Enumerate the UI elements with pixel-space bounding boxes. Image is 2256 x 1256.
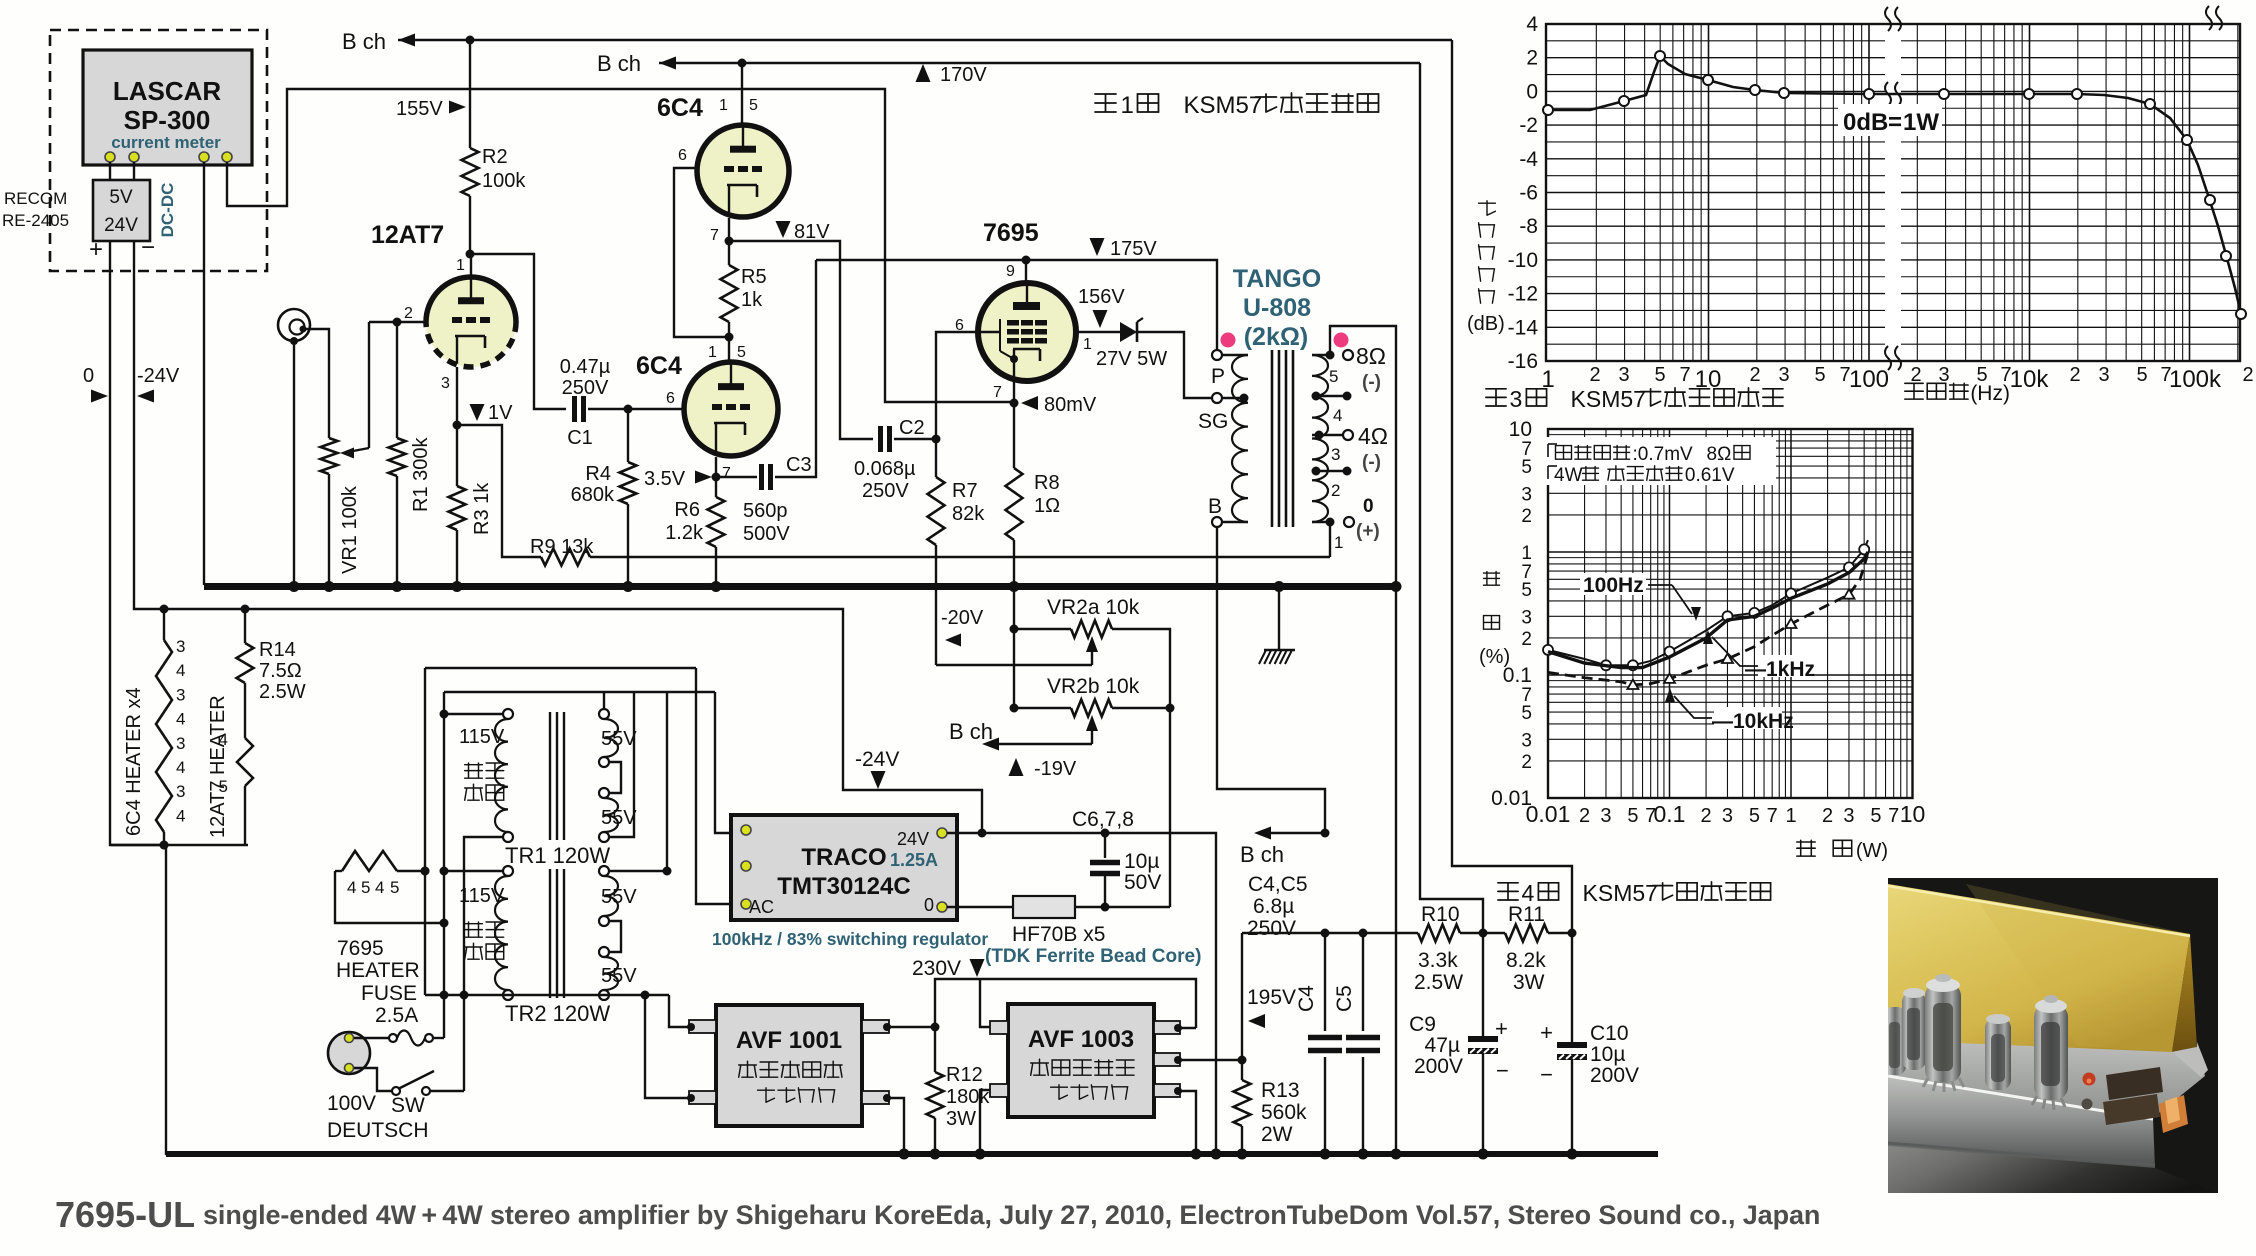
svg-text:7695: 7695 [337, 937, 384, 960]
svg-text:−: − [1540, 1062, 1553, 1087]
chart1 y axis label katakana [1479, 201, 1496, 215]
svg-text:AC: AC [749, 897, 774, 917]
transformer core [1271, 350, 1274, 527]
svg-text:1: 1 [1785, 805, 1796, 827]
svg-text:1: 1 [1121, 92, 1134, 119]
capacitor C2 0.068u [878, 426, 883, 452]
svg-text:0.01: 0.01 [1526, 801, 1571, 827]
transformer TR2 primary [503, 866, 513, 876]
svg-text:1: 1 [1334, 533, 1343, 552]
svg-text:560p: 560p [743, 500, 788, 522]
transformer TR1 primary [503, 709, 513, 719]
wire 6C4a grid pin6 [674, 168, 727, 337]
svg-text:4: 4 [219, 730, 228, 749]
svg-text:TANGO: TANGO [1233, 265, 1321, 293]
svg-text:TRACO: TRACO [801, 844, 886, 871]
AVF1003 pins [1154, 1021, 1180, 1034]
svg-text:LASCAR: LASCAR [113, 76, 222, 106]
svg-text:12AT7: 12AT7 [371, 221, 444, 249]
capacitor C3 560p [716, 476, 757, 478]
svg-text:B ch: B ch [342, 29, 386, 54]
svg-text:5: 5 [1521, 703, 1532, 724]
secondary tap 2 [1312, 470, 1347, 472]
svg-text:3W: 3W [1513, 971, 1545, 994]
svg-text:3: 3 [441, 375, 450, 392]
svg-text:5: 5 [2136, 364, 2147, 386]
svg-text:R9 13k: R9 13k [530, 536, 594, 558]
wire B ch line to R2 [469, 40, 471, 148]
svg-text:0: 0 [83, 365, 94, 387]
label 170V [916, 64, 931, 82]
svg-text:10k: 10k [2010, 366, 2050, 393]
svg-text:500V: 500V [743, 523, 790, 545]
wire TR2 top line to x667 [604, 870, 667, 872]
svg-text:115V: 115V [459, 726, 505, 748]
meter block dashed enclosure [50, 30, 267, 271]
diode zener 27V 5W [1076, 331, 1120, 333]
resistor R13 560k 2W [1241, 933, 1243, 1080]
chart1 caption [1486, 389, 1506, 406]
svg-text:—1kHz: —1kHz [1745, 658, 1815, 681]
AVF1001 pins [689, 1020, 716, 1033]
svg-text:SG: SG [1198, 410, 1228, 433]
phase dot secondary [1334, 333, 1349, 348]
label 175V [1090, 238, 1105, 256]
svg-text:KSM57: KSM57 [1571, 386, 1646, 412]
svg-text:-12: -12 [1508, 283, 1538, 306]
phase dot primary [1221, 333, 1236, 348]
node -24V rail dots [160, 605, 169, 614]
svg-text:2: 2 [2242, 364, 2253, 386]
svg-text:R3 1k: R3 1k [471, 482, 493, 535]
TR1 secondary jumper [609, 762, 621, 793]
stub B ch output left arrow [1262, 832, 1325, 834]
wire 12AT7 plate node [470, 254, 472, 277]
svg-text:560k: 560k [1261, 1101, 1307, 1124]
wire 6C4b plate stem [728, 337, 730, 363]
svg-text:SW: SW [391, 1094, 425, 1117]
svg-text:(dB): (dB) [1467, 313, 1505, 335]
transformer TR2 secondary [599, 866, 609, 876]
svg-text:VR1 100k: VR1 100k [339, 485, 361, 574]
svg-text:=: = [1888, 109, 1902, 136]
curve 100Hz [1548, 540, 1868, 665]
svg-text:-4: -4 [1519, 148, 1538, 171]
svg-text:195V: 195V [1247, 986, 1296, 1009]
svg-text:RECOM: RECOM [4, 189, 67, 208]
svg-text:3.5V: 3.5V [644, 468, 686, 490]
svg-text:7.5Ω: 7.5Ω [259, 660, 302, 682]
chart1 x axis label [1905, 383, 1968, 399]
svg-text:5: 5 [1521, 580, 1532, 601]
regulator TRACO TMT30124C [731, 815, 957, 920]
svg-text:680k: 680k [571, 484, 615, 506]
resistor R1 300k [396, 322, 398, 438]
wires AVF1003 right pins [1178, 1027, 1196, 1029]
svg-text:82k: 82k [952, 503, 985, 525]
wire NFB from cathode [457, 425, 541, 557]
AC feed line upper [425, 667, 696, 669]
svg-text:(-): (-) [1362, 372, 1381, 393]
wire C3 to plate line [775, 260, 816, 477]
svg-text:3: 3 [1722, 805, 1733, 827]
svg-text:-10: -10 [1508, 249, 1538, 272]
svg-text:175V: 175V [1110, 238, 1157, 260]
svg-text:2: 2 [1589, 364, 1600, 386]
svg-text:24V: 24V [897, 829, 929, 849]
svg-text:C3: C3 [786, 454, 812, 476]
resistor R2 100k [462, 148, 479, 196]
resistor R7 82k [935, 439, 937, 477]
resistor R6 1.2k [708, 497, 725, 547]
AC bottom line [425, 994, 669, 996]
svg-text:4Ω: 4Ω [1358, 423, 1388, 449]
secondary tap 3 (4 ohm) [1312, 434, 1348, 436]
svg-text:3.3k: 3.3k [1418, 949, 1458, 972]
resistor R5 1k [728, 241, 730, 265]
svg-text:SP-300: SP-300 [124, 105, 211, 135]
svg-text:6C4: 6C4 [657, 94, 703, 122]
svg-text:R6: R6 [674, 499, 700, 521]
svg-text:250V: 250V [562, 377, 609, 399]
resistor R14 7.5ohm [244, 609, 246, 643]
svg-text:1V: 1V [488, 402, 513, 424]
svg-text:-19V: -19V [1034, 758, 1077, 780]
svg-text:—10kHz: —10kHz [1712, 710, 1794, 733]
rectifier unit AVF 1001 [716, 1005, 862, 1126]
svg-text:B ch: B ch [597, 51, 641, 76]
svg-text:100k: 100k [482, 170, 526, 192]
photo of amplifier [1884, 878, 2218, 1193]
wire jack shield to bus [293, 341, 295, 585]
tube 7695 [1025, 260, 1027, 284]
svg-text:50V: 50V [1124, 871, 1161, 894]
svg-text:5: 5 [390, 878, 399, 897]
svg-text:10: 10 [1509, 418, 1532, 441]
svg-text:C10: C10 [1590, 1022, 1629, 1045]
svg-text:U-808: U-808 [1243, 294, 1311, 322]
svg-text:5: 5 [361, 878, 370, 897]
svg-text:115V: 115V [459, 885, 505, 907]
svg-text:4: 4 [375, 878, 384, 897]
svg-text:-24V: -24V [855, 748, 899, 771]
wire meter pin3 to ground bus [203, 162, 205, 585]
svg-text:3: 3 [1521, 484, 1532, 505]
svg-text:3: 3 [1331, 445, 1340, 464]
resistor R12 180k 3W [927, 1072, 944, 1118]
resistor R11 8.2k [1505, 925, 1548, 942]
wire diode to SG [1137, 332, 1211, 398]
svg-text:HF70B x5: HF70B x5 [1012, 923, 1105, 946]
svg-text:3: 3 [1618, 364, 1629, 386]
svg-text:3: 3 [1521, 730, 1532, 751]
svg-text:7: 7 [1767, 805, 1778, 827]
wire 6C4a cathode node [728, 218, 730, 241]
wire VR2 node to C6,7,8 [1169, 708, 1171, 907]
svg-text:VR2a 10k: VR2a 10k [1047, 596, 1140, 619]
wire TR1 sec bottom via riser [609, 692, 634, 837]
label 81V [776, 221, 791, 238]
meter LASCAR SP-300 [83, 50, 252, 165]
svg-text:0: 0 [924, 895, 934, 915]
svg-text:4: 4 [176, 758, 185, 777]
capacitor C9 47u electrolytic [1482, 933, 1484, 1036]
svg-text:FUSE: FUSE [361, 982, 417, 1005]
svg-text:1: 1 [456, 257, 465, 274]
svg-text:100k: 100k [2169, 366, 2222, 393]
svg-text:0: 0 [1363, 496, 1374, 517]
LASCAR pins [105, 152, 115, 162]
svg-text:C1: C1 [567, 427, 593, 449]
svg-text:3: 3 [1843, 805, 1854, 827]
svg-text:7: 7 [1679, 364, 1690, 386]
svg-text:R8: R8 [1034, 472, 1060, 494]
B+ line to R10 R11 [1242, 932, 1418, 934]
resistor R4 680k [627, 409, 629, 462]
curve labels [1580, 573, 1646, 595]
ground symbol [1278, 585, 1280, 650]
svg-text:5: 5 [1521, 457, 1532, 478]
svg-text:-20V: -20V [941, 607, 984, 629]
riser x444 [443, 692, 445, 995]
svg-text:AVF 1003: AVF 1003 [1028, 1026, 1134, 1053]
svg-text:156V: 156V [1078, 286, 1125, 308]
svg-text:8Ω: 8Ω [1707, 444, 1732, 465]
wire cathode pin3 node [456, 367, 458, 425]
svg-text:AVF 1001: AVF 1001 [736, 1027, 842, 1054]
svg-text:5V: 5V [109, 187, 133, 208]
wire TR1 sec top to AC line [603, 692, 605, 709]
svg-text:HEATER: HEATER [336, 959, 420, 982]
resistor R8 1ohm [1013, 403, 1015, 468]
svg-text:5: 5 [1870, 805, 1881, 827]
svg-text:4: 4 [176, 661, 185, 680]
capacitors C4 C5 [1324, 933, 1326, 1031]
svg-text:-14: -14 [1508, 316, 1539, 339]
svg-text:5: 5 [737, 344, 746, 361]
svg-text:KSM57: KSM57 [1583, 880, 1658, 906]
wire grid pin2 [369, 321, 426, 323]
svg-text:2: 2 [1701, 805, 1712, 827]
svg-text:6C4: 6C4 [636, 352, 682, 380]
wire -24V rail [134, 241, 982, 833]
svg-text:C4,C5: C4,C5 [1248, 873, 1308, 896]
svg-text:-2: -2 [1519, 114, 1538, 137]
svg-text:27V 5W: 27V 5W [1096, 348, 1167, 370]
label -19V [1009, 758, 1024, 776]
VR2b wiper from B ch [1091, 725, 1093, 744]
wire tap5 to ground frame [1330, 326, 1396, 1155]
svg-text:200V: 200V [1590, 1064, 1639, 1087]
transformer TR1 secondary [599, 709, 609, 719]
potentiometer VR1 100k [321, 438, 338, 474]
AC feed line lower [444, 691, 715, 693]
svg-text:0.1: 0.1 [1654, 801, 1686, 827]
svg-text:1Ω: 1Ω [1034, 495, 1060, 517]
svg-text:-8: -8 [1519, 215, 1538, 238]
svg-text:7: 7 [722, 465, 731, 482]
svg-text:3: 3 [2098, 364, 2109, 386]
svg-text::0.7mV: :0.7mV [1633, 444, 1694, 465]
svg-text:6: 6 [678, 147, 687, 164]
svg-text:3: 3 [176, 637, 185, 656]
wire NFB B drop [1420, 63, 1483, 933]
svg-text:B: B [1208, 495, 1222, 518]
wire switch to riser [430, 1090, 464, 1092]
svg-text:−: − [141, 234, 155, 261]
chart1 response curve [1548, 56, 2241, 314]
svg-text:1: 1 [1083, 336, 1092, 353]
svg-text:R2: R2 [482, 146, 508, 168]
svg-text:3: 3 [1600, 805, 1611, 827]
svg-text:(+): (+) [1356, 521, 1380, 542]
transformer primary winding [1222, 354, 1248, 356]
svg-text:250V: 250V [1247, 917, 1296, 940]
svg-text:2: 2 [1521, 629, 1532, 650]
wire B terminal down [1217, 527, 1325, 833]
legend noise text [1546, 437, 1776, 485]
svg-text:B ch: B ch [1240, 842, 1284, 867]
svg-text:R1 300k: R1 300k [410, 437, 432, 512]
svg-text:81V: 81V [794, 221, 830, 243]
bottom ground bus [166, 1151, 1658, 1157]
svg-text:-24V: -24V [137, 365, 180, 387]
svg-text:155V: 155V [396, 98, 443, 120]
svg-text:2: 2 [1526, 47, 1538, 70]
svg-text:−: − [1496, 1058, 1509, 1083]
svg-text:R13: R13 [1261, 1079, 1300, 1102]
capacitor C10 10u electrolytic [1571, 933, 1573, 1042]
svg-text:TR2 120W: TR2 120W [505, 1001, 610, 1026]
svg-text:(2kΩ): (2kΩ) [1244, 323, 1309, 351]
wire 6C4a plate stem [741, 63, 743, 126]
wire NFB A drop [1452, 40, 1572, 933]
svg-text:5: 5 [749, 97, 758, 114]
wire TRACO inputs [715, 692, 731, 833]
svg-text:6C4 HEATER x4: 6C4 HEATER x4 [123, 687, 145, 836]
svg-text:8.2k: 8.2k [1506, 949, 1546, 972]
svg-text:6.8µ: 6.8µ [1253, 895, 1294, 918]
svg-text:3W: 3W [946, 1108, 976, 1130]
tube 12AT7 [426, 277, 516, 367]
svg-text:55V: 55V [601, 728, 637, 750]
svg-text:single-ended 4W + 4W stereo am: single-ended 4W + 4W stereo amplifier by… [203, 1200, 1820, 1230]
riser from fuse [424, 668, 426, 995]
chart frequency response [1508, 6, 2254, 393]
svg-text:2: 2 [404, 305, 413, 322]
wire 0V rail down-left [110, 241, 165, 845]
svg-text:5: 5 [1814, 364, 1825, 386]
svg-text:3: 3 [176, 734, 185, 753]
svg-text:2.5W: 2.5W [1414, 971, 1463, 994]
svg-text:(TDK Ferrite Bead Core): (TDK Ferrite Bead Core) [985, 946, 1201, 967]
svg-text:C4: C4 [1295, 985, 1318, 1012]
TR2 secondary jumper [609, 921, 621, 952]
svg-text:R10: R10 [1421, 903, 1460, 926]
capacitor C1 0.47u [572, 396, 577, 422]
svg-text:C5: C5 [1333, 985, 1356, 1012]
svg-text:3: 3 [1521, 607, 1532, 628]
fuse [354, 1037, 389, 1039]
svg-text:1k: 1k [741, 289, 763, 311]
svg-text:7: 7 [993, 384, 1002, 401]
svg-text:R5: R5 [741, 266, 767, 288]
svg-text:4: 4 [176, 806, 185, 825]
wire NFB line to output 0 tap [590, 556, 1330, 558]
svg-text:2: 2 [2069, 364, 2080, 386]
tube 6C4 (b) [684, 362, 778, 456]
svg-text:10µ: 10µ [1590, 1043, 1625, 1066]
wire meter pin4 sense line to 7695 cathode [227, 89, 1011, 402]
svg-text:1.25A: 1.25A [890, 850, 938, 870]
wire R7 to VR2a wiper [936, 664, 1092, 666]
svg-text:6: 6 [666, 390, 675, 407]
svg-text:4: 4 [1521, 880, 1534, 906]
svg-text:B ch: B ch [949, 719, 993, 744]
svg-text:2: 2 [1331, 481, 1340, 500]
secondary tap 5 (8 ohm) [1312, 354, 1330, 356]
switch SW [354, 1068, 392, 1091]
svg-text:C2: C2 [899, 417, 925, 439]
wires AVF1001 right pins [887, 1026, 935, 1028]
wire cathode to C2 [729, 241, 873, 439]
svg-text:2: 2 [1521, 506, 1532, 527]
svg-text:1: 1 [708, 344, 717, 361]
wire jack hot to VR1 [303, 329, 329, 438]
wire AC line to AVF1001 pins [645, 995, 689, 1098]
svg-text:(-): (-) [1362, 452, 1381, 473]
secondary tap 4 [1312, 395, 1347, 397]
tube 6C4 (a) [697, 125, 789, 217]
svg-text:230V: 230V [912, 957, 961, 980]
resistor R9 13k [541, 549, 590, 566]
svg-text:1: 1 [719, 97, 728, 114]
svg-text:2: 2 [1521, 752, 1532, 773]
svg-text:R12: R12 [946, 1064, 983, 1086]
svg-text:2: 2 [1749, 364, 1760, 386]
svg-text:0.068µ: 0.068µ [854, 458, 916, 480]
chart distortion [1548, 429, 1913, 798]
svg-text:47µ: 47µ [1425, 1034, 1460, 1057]
svg-text:5: 5 [219, 777, 228, 796]
secondary tap 1 (0 +) [1312, 521, 1330, 523]
svg-text:R7: R7 [952, 480, 978, 502]
wire 5V pins into box [109, 162, 111, 180]
svg-text:100V: 100V [327, 1092, 376, 1115]
svg-text:5: 5 [1329, 367, 1338, 386]
svg-text:C6,7,8: C6,7,8 [1072, 808, 1134, 831]
svg-text:+: + [89, 236, 103, 263]
svg-text:+: + [1540, 1020, 1553, 1045]
svg-text:12AT7 HEATER: 12AT7 HEATER [207, 695, 229, 838]
svg-text:10: 10 [1900, 801, 1926, 827]
mains plug [328, 1032, 370, 1074]
svg-text:3: 3 [176, 685, 185, 704]
svg-text:100kHz / 83% switching regulat: 100kHz / 83% switching regulator [712, 929, 988, 949]
svg-text:1.2k: 1.2k [665, 522, 704, 544]
svg-text:2.5A: 2.5A [375, 1004, 418, 1027]
svg-text:(%): (%) [1479, 646, 1510, 668]
chart2 x axis label [1797, 840, 1815, 856]
svg-text:5: 5 [1654, 364, 1665, 386]
svg-text:VR2b 10k: VR2b 10k [1047, 675, 1140, 698]
svg-text:TR1 120W: TR1 120W [505, 843, 610, 868]
svg-text:4: 4 [1333, 406, 1342, 425]
svg-text:KSM57: KSM57 [1184, 92, 1263, 119]
resistor 12AT7 heater [244, 683, 246, 738]
wire 6C4b cathode node [715, 457, 717, 477]
svg-text:170V: 170V [940, 64, 987, 86]
